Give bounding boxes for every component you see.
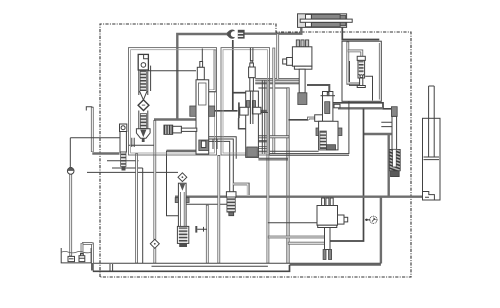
pipe dark vertical to valve C left [286, 87, 289, 263]
pipe valve B to solenoid stem [255, 79, 299, 84]
accumulator valve V4 [226, 192, 236, 216]
wire solenoid Y2 feed upper [268, 236, 325, 239]
wire pair valve B right down [262, 81, 265, 155]
wire solenoid Y2 feed lower [288, 242, 325, 245]
wire valve B right port [258, 110, 268, 112]
wire box bottom to diamond [87, 171, 178, 173]
pipe valve B lower port [258, 146, 268, 149]
pipe box2 inner down [272, 48, 275, 154]
wire injector feed down [388, 134, 390, 196]
check valve D1 [138, 100, 149, 111]
wire to solenoid Y2 body [268, 222, 317, 224]
valve C right port square [334, 104, 340, 108]
wire gray left feed [154, 118, 196, 120]
wire V1 cap to valve A [148, 70, 196, 72]
wire connector branch to valve B [233, 92, 246, 94]
wire tank riser pair [91, 243, 94, 271]
wire vertical gray pair left [135, 153, 138, 263]
hydraulic cylinder K1 [298, 14, 353, 28]
wire tube branch to V4 [186, 203, 227, 205]
wire bottom rail A [93, 262, 381, 264]
wire tank elbow [82, 242, 92, 245]
wire cylinder right down [342, 28, 379, 40]
left regulator valve [120, 124, 127, 171]
pipe box1 right to valve A [205, 50, 216, 92]
wire strainer2 riser [81, 243, 84, 255]
spring chamber under V1 [136, 111, 150, 143]
pipe V4 branch to rail [233, 184, 248, 195]
pipe elbow to valve A bottom [167, 150, 200, 152]
relief box right edge double [378, 43, 380, 100]
pipe valve B to vertical [246, 135, 290, 138]
wire supply from connector to cylinder [244, 28, 301, 34]
left regulator box [70, 138, 134, 167]
wire ball suction line [69, 167, 72, 256]
solenoid valve Y1 [283, 40, 312, 105]
wire gray vertical right [380, 197, 382, 264]
lubrication valve V5 tube [175, 173, 189, 247]
wire valve C top to right [333, 103, 391, 109]
pipe from dashed step down to stem line [276, 34, 279, 80]
valve body bottom edge [270, 154, 350, 156]
wire bottom rail B [152, 265, 268, 267]
valve body box 1 [129, 48, 217, 155]
port element right of valve A [213, 139, 217, 149]
accumulator cylinder right [423, 86, 441, 200]
valve body box 2 [221, 48, 270, 155]
wire left box line3 [112, 167, 143, 169]
spool valve A [190, 62, 215, 155]
wire dark between spool valves [209, 110, 238, 112]
wire vertical thin mid [167, 151, 180, 216]
wire V1 drain dark [128, 144, 154, 146]
dashed control-unit border [100, 24, 411, 277]
pressure gauge [365, 216, 377, 223]
breather connector X1 [227, 29, 245, 40]
wire notch drain to valve B [239, 118, 246, 129]
wire bottom rail dark [93, 265, 290, 271]
wire relief box to injector [364, 133, 392, 135]
wire pair down from branch [206, 205, 209, 263]
wire pair from box2 left down [217, 155, 220, 263]
spool valve B [238, 61, 268, 158]
small solenoid Y3 [164, 125, 197, 134]
relief valve box 3 [342, 41, 381, 101]
pipe to injector valve [381, 122, 392, 126]
wire to valve C left port [288, 119, 308, 121]
pressure control valve C [315, 92, 342, 150]
wire connector X1 stem down [232, 40, 234, 111]
strainer 2 [79, 254, 85, 262]
drain plug symbol [195, 226, 207, 233]
wire rail step junction [110, 264, 113, 271]
wire below diamond D2 [153, 248, 156, 263]
wire dark gauge branch [330, 109, 364, 242]
wire left box line2 [107, 160, 139, 162]
injector valve V6 [389, 107, 400, 177]
wire stem to valve C tube [307, 85, 329, 93]
wire vertical dark pair [153, 120, 156, 240]
pilot valve V1 [138, 54, 148, 100]
wire valve C right gray [338, 107, 383, 109]
wire cap stub left [86, 107, 92, 111]
check valve D2 [150, 239, 159, 248]
pipe valve B neck up [250, 48, 253, 61]
suction ball valve [67, 168, 74, 175]
wire valve B to solenoid branch [258, 87, 288, 89]
wire valve A neck up [201, 49, 203, 62]
V1 sleeve line [150, 66, 152, 91]
oil tank [61, 248, 91, 263]
relief valve V7 [348, 42, 373, 101]
solenoid valve Y2 [317, 198, 348, 260]
wire gray into valve C left [258, 140, 268, 142]
strainer 1 [68, 256, 75, 261]
relief valve drain L [348, 102, 350, 155]
wire connector to left down [177, 34, 227, 120]
wire bottom thick return [290, 263, 381, 266]
wire left box lines [92, 152, 119, 154]
relief cap stem [350, 61, 360, 85]
pipe valve A to V4 accumulator [209, 139, 234, 192]
wire pair box2 right down [266, 80, 269, 263]
wire left riser [91, 107, 94, 152]
wire vertical thin [142, 168, 144, 263]
wire gray main pressure rail [175, 195, 428, 197]
wire thin to valve C body [258, 150, 319, 152]
